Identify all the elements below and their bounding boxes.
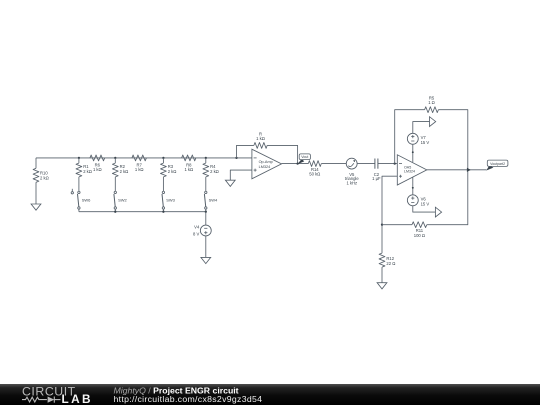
svg-text:15 V: 15 V [421,201,430,206]
logo wire resistor diode glyph [22,397,61,403]
svg-text:LM324: LM324 [259,165,271,169]
node output junction arrow [467,168,471,172]
wire bottom bus [79,211,206,213]
node SW3 bottom junction [162,211,164,213]
svg-text:V4: V4 [194,224,200,229]
wire feedback left [237,145,254,158]
node V6 pin dot [412,187,414,189]
node R1 top junction [78,157,80,159]
svg-text:SW2: SW2 [118,198,127,203]
flag Voutpart2 [486,160,508,170]
wire feedback2 left [395,110,425,164]
resistor R3 [161,163,177,177]
wire op-amp U2 plus input [382,176,397,225]
voltage source V4 [193,224,211,236]
node R3 top junction [162,157,164,159]
resistor R feedback [254,131,267,148]
wire C2 to op-amp [378,163,397,165]
resistor R6 [90,155,105,172]
svg-text:1 kΩ: 1 kΩ [184,167,193,172]
svg-text:100 Ω: 100 Ω [414,233,425,238]
node SW2 bottom junction [114,211,116,213]
svg-text:2 kΩ: 2 kΩ [120,169,129,174]
svg-text:Voutpart2: Voutpart2 [490,162,505,166]
wire V7 stub [412,144,414,162]
svg-text:Vout: Vout [301,155,308,159]
svg-text:1 Ω: 1 Ω [428,100,435,105]
wire R12 bottom [381,267,383,283]
wire op-amp U2 output [427,169,487,171]
svg-text:8 V: 8 V [193,231,199,236]
resistor R7 [132,155,147,172]
svg-text:LAB: LAB [62,392,93,405]
switch SW6 [71,177,91,212]
wire op-amp U1 plus input [230,170,252,180]
op-amp U1 LM324 [252,149,282,179]
svg-text:Op-Amp: Op-Amp [259,160,273,164]
resistor R14 [308,161,321,177]
svg-text:LM324: LM324 [404,170,415,174]
svg-text:15 V: 15 V [421,140,430,145]
wire R12 top [381,225,383,253]
wire R14 to V5 [321,163,346,165]
resistor R8 [182,155,196,172]
wire V5 to C2 [357,163,375,165]
voltage source V6 [407,195,429,206]
svg-text:22 Ω: 22 Ω [386,261,395,266]
svg-text:SW6: SW6 [82,198,91,203]
wire V6 stub [412,177,414,195]
capacitor C2 [372,159,381,182]
svg-text:SW3: SW3 [166,198,175,203]
wire op-amp U1 output [282,163,309,165]
resistor R12 [379,253,395,267]
voltage source V5 function generator [345,158,359,185]
node feedback junction A [235,157,237,159]
switch SW4 [204,177,218,212]
wire R4 top [205,158,207,163]
svg-text:2 kΩ: 2 kΩ [210,169,219,174]
ground below V4 [201,257,211,263]
svg-text:1 kHz: 1 kHz [346,181,357,186]
node V7 pin dot [412,151,414,153]
svg-text:http://circuitlab.com/cx8s2v9g: http://circuitlab.com/cx8s2v9gz3d54 [114,394,263,404]
wire R11 right [427,170,468,225]
wire V4 bottom [205,236,207,257]
wire top bus [36,157,252,159]
svg-text:2 kΩ: 2 kΩ [168,169,177,174]
node Vout junction [296,162,298,164]
svg-text:50 kΩ: 50 kΩ [309,172,320,177]
node op-amp U2 minus junction [394,162,396,164]
svg-text:1 kΩ: 1 kΩ [135,167,144,172]
resistor R5 [425,95,439,112]
wire V6 to ground [413,206,436,212]
wire R1 top [78,158,80,163]
ground right of V7 [430,117,436,127]
wire feedback right [267,145,297,163]
wire R11 left [382,224,412,226]
wire R3 top [162,158,164,163]
svg-text:2 kΩ: 2 kΩ [83,169,92,174]
ground below R10 [31,204,41,210]
wire V7 to ground [413,122,430,134]
resistor R11 [412,222,427,238]
wire V4 top [205,212,207,225]
voltage source V7 [407,133,429,144]
wire R10 top [35,158,37,168]
switch SW2 [114,177,128,212]
resistor R10 [33,168,49,182]
resistor R2 [112,163,128,177]
op-amp U2 LM324 [397,155,427,185]
svg-text:1 µF: 1 µF [372,176,381,181]
svg-text:2 kΩ: 2 kΩ [40,176,49,181]
ground below R12 [377,283,387,289]
svg-text:1 kΩ: 1 kΩ [93,167,102,172]
ground right of V6 [435,207,441,217]
node R2 top junction [114,157,116,159]
node SW4 bottom junction [205,211,207,213]
svg-text:SW4: SW4 [209,198,218,203]
footer bar [0,384,540,405]
wire R10 bottom [35,182,37,204]
node R11 R12 junction [381,224,383,226]
resistor R4 [203,163,219,177]
node R4 top junction [205,157,207,159]
resistor R1 [76,163,92,177]
wire R2 top [114,158,116,163]
ground at U1 plus input [225,180,235,186]
wire feedback2 right [438,110,467,170]
switch SW3 [162,177,176,212]
svg-text:1 kΩ: 1 kΩ [256,136,265,141]
flag Vout [297,154,310,164]
